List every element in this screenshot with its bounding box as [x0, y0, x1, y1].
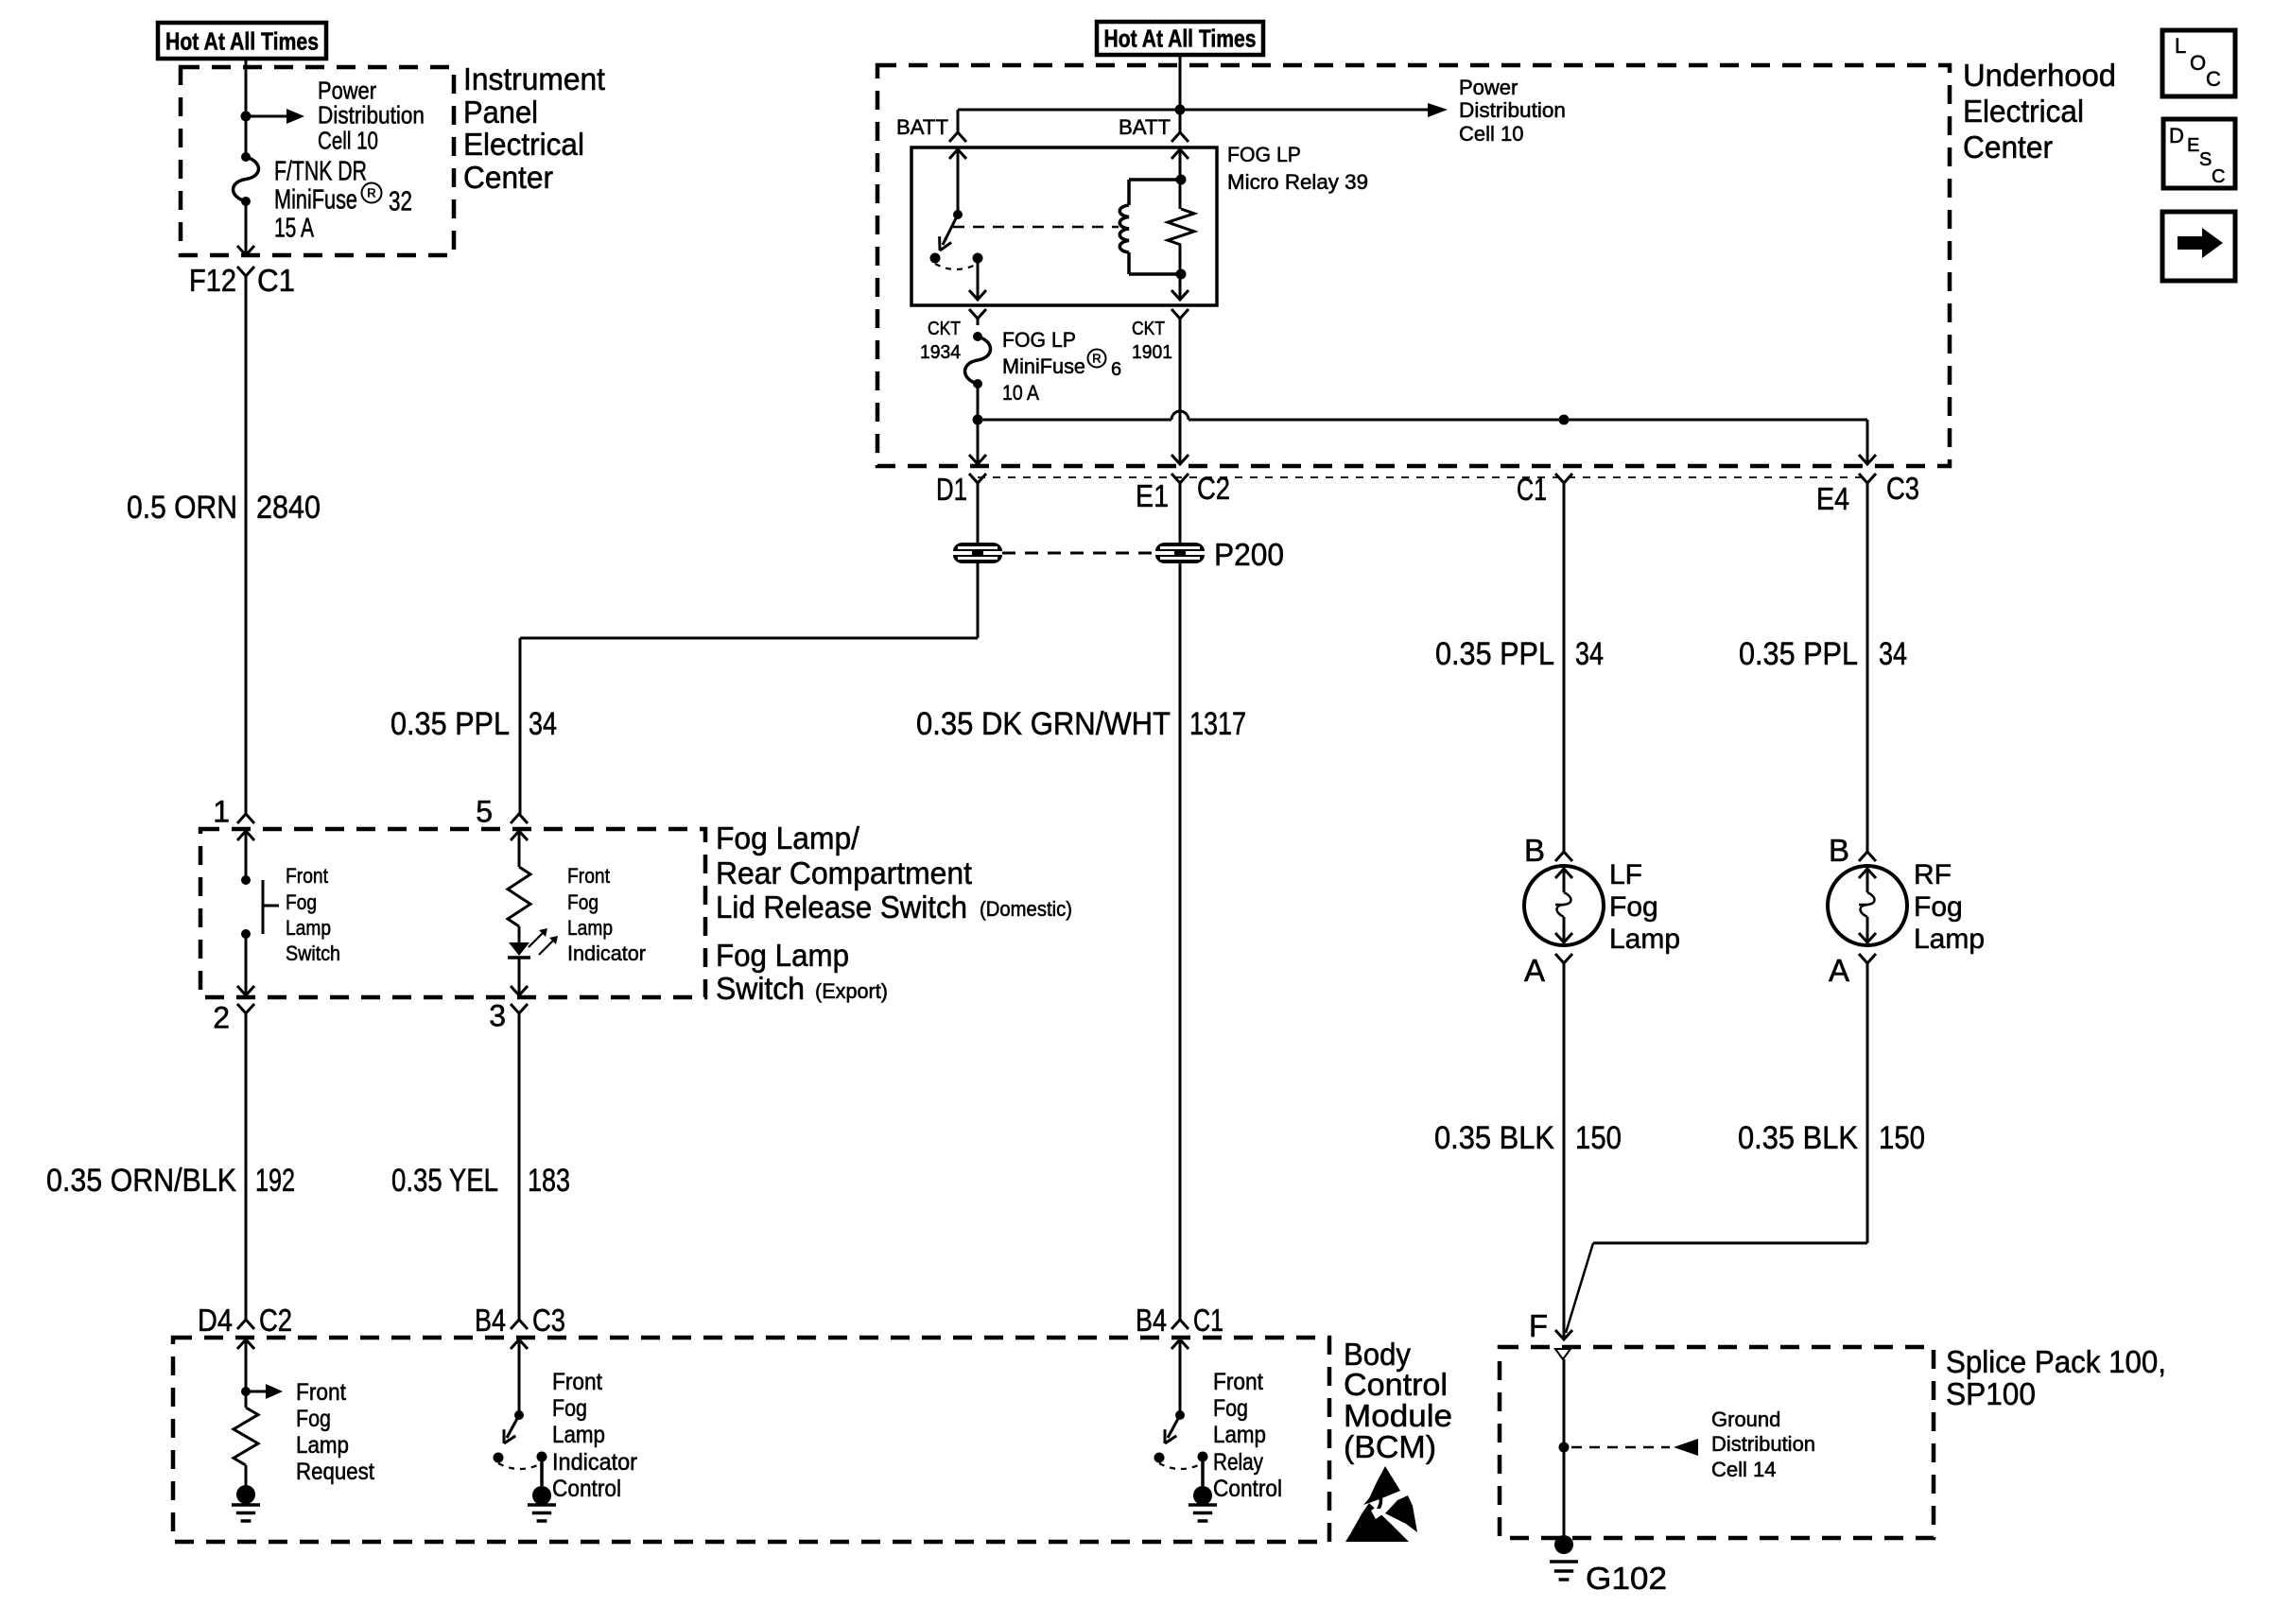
svg-text:32: 32	[389, 186, 412, 216]
svg-text:Cell 10: Cell 10	[318, 126, 378, 154]
svg-text:183: 183	[528, 1163, 570, 1199]
svg-text:C3: C3	[532, 1303, 565, 1338]
svg-text:D: D	[2169, 124, 2184, 147]
svg-text:Hot At All Times: Hot At All Times	[165, 26, 319, 55]
svg-text:E: E	[2187, 135, 2199, 156]
svg-text:192: 192	[255, 1163, 295, 1199]
svg-text:34: 34	[529, 706, 557, 742]
svg-text:C3: C3	[1886, 471, 1919, 506]
svg-text:Center: Center	[1963, 130, 2053, 164]
svg-text:Power: Power	[1459, 76, 1518, 99]
svg-text:Front: Front	[286, 864, 328, 888]
svg-text:C: C	[2206, 67, 2221, 91]
svg-text:2840: 2840	[256, 490, 321, 526]
svg-text:Control: Control	[1213, 1476, 1282, 1502]
svg-text:Electrical: Electrical	[1963, 94, 2084, 129]
svg-text:C1: C1	[1517, 472, 1547, 507]
svg-text:0.35 DK GRN/WHT: 0.35 DK GRN/WHT	[916, 706, 1171, 742]
svg-text:6: 6	[1111, 359, 1121, 380]
svg-text:F12: F12	[189, 263, 236, 298]
svg-text:Lamp: Lamp	[286, 916, 331, 940]
svg-text:Module: Module	[1344, 1398, 1452, 1433]
svg-text:SP100: SP100	[1946, 1376, 2036, 1411]
svg-text:15 A: 15 A	[274, 213, 314, 243]
svg-text:D4: D4	[198, 1303, 233, 1338]
svg-text:F: F	[1529, 1308, 1548, 1343]
svg-text:A: A	[1829, 953, 1849, 988]
svg-text:5: 5	[476, 795, 493, 829]
svg-text:Instrument: Instrument	[463, 61, 605, 96]
svg-text:D1: D1	[936, 472, 967, 507]
svg-text:(Domestic): (Domestic)	[980, 897, 1072, 921]
svg-text:Lamp: Lamp	[1609, 924, 1680, 955]
svg-text:Center: Center	[463, 160, 553, 195]
svg-text:B4: B4	[1136, 1303, 1167, 1338]
svg-text:Front: Front	[296, 1379, 346, 1406]
svg-text:Distribution: Distribution	[318, 100, 425, 129]
svg-text:Lamp: Lamp	[296, 1432, 349, 1459]
svg-text:Lamp: Lamp	[567, 916, 613, 940]
svg-text:B: B	[1524, 833, 1545, 868]
svg-text:0.5 ORN: 0.5 ORN	[127, 490, 237, 526]
svg-text:Ground: Ground	[1711, 1408, 1780, 1431]
svg-text:1934: 1934	[920, 342, 961, 363]
svg-text:0.35 YEL: 0.35 YEL	[391, 1163, 498, 1199]
svg-text:0.35 PPL: 0.35 PPL	[390, 706, 510, 742]
svg-text:Fog Lamp: Fog Lamp	[716, 938, 849, 973]
svg-text:P200: P200	[1214, 537, 1284, 572]
svg-text:Control: Control	[1344, 1367, 1448, 1402]
svg-text:C1: C1	[1193, 1303, 1223, 1338]
svg-text:0.35 BLK: 0.35 BLK	[1434, 1120, 1554, 1156]
svg-text:Fog: Fog	[1914, 891, 1963, 923]
svg-text:B4: B4	[475, 1303, 506, 1338]
svg-text:0.35 PPL: 0.35 PPL	[1435, 636, 1554, 672]
svg-text:Lamp: Lamp	[552, 1422, 605, 1448]
svg-text:F/TNK DR: F/TNK DR	[274, 156, 367, 186]
svg-text:S: S	[2199, 149, 2212, 170]
svg-text:Switch: Switch	[716, 971, 805, 1006]
svg-text:C: C	[2212, 166, 2225, 187]
svg-text:Distribution: Distribution	[1459, 98, 1566, 122]
svg-text:C1: C1	[257, 263, 295, 298]
svg-text:FOG LP: FOG LP	[1002, 328, 1076, 352]
svg-text:RF: RF	[1914, 859, 1952, 890]
svg-text:Front: Front	[567, 864, 610, 888]
svg-text:CKT: CKT	[1132, 319, 1165, 339]
svg-text:C2: C2	[1197, 471, 1230, 506]
svg-text:Lamp: Lamp	[1213, 1422, 1266, 1448]
svg-text:Fog: Fog	[567, 890, 599, 914]
svg-text:Underhood: Underhood	[1963, 58, 2116, 93]
svg-text:A: A	[1524, 953, 1545, 988]
svg-text:CKT: CKT	[928, 319, 961, 339]
svg-text:B: B	[1829, 833, 1849, 868]
svg-text:1317: 1317	[1189, 706, 1246, 742]
svg-text:(Export): (Export)	[815, 979, 888, 1003]
svg-text:0.35 ORN/BLK: 0.35 ORN/BLK	[46, 1163, 236, 1199]
svg-text:Electrical: Electrical	[463, 127, 584, 162]
svg-text:2: 2	[213, 1001, 230, 1035]
svg-text:Indicator: Indicator	[567, 942, 646, 965]
svg-text:BATT: BATT	[896, 115, 948, 139]
svg-text:Splice Pack 100,: Splice Pack 100,	[1946, 1344, 2166, 1379]
svg-text:0.35 BLK: 0.35 BLK	[1738, 1120, 1858, 1156]
svg-text:MiniFuse: MiniFuse	[1002, 354, 1085, 378]
svg-text:34: 34	[1879, 636, 1907, 672]
svg-text:Hot At All Times: Hot At All Times	[1104, 24, 1257, 52]
svg-text:(BCM): (BCM)	[1344, 1429, 1436, 1464]
svg-text:Rear Compartment: Rear Compartment	[716, 855, 972, 890]
svg-text:Cell 10: Cell 10	[1459, 122, 1523, 146]
svg-text:Lamp: Lamp	[1914, 924, 1985, 955]
svg-text:150: 150	[1575, 1120, 1622, 1156]
svg-text:G102: G102	[1586, 1561, 1667, 1596]
svg-text:150: 150	[1879, 1120, 1925, 1156]
svg-text:Fog: Fog	[1213, 1395, 1248, 1422]
svg-text:34: 34	[1575, 636, 1604, 672]
svg-text:Lid Release Switch: Lid Release Switch	[716, 890, 967, 924]
svg-text:R: R	[1092, 352, 1101, 366]
svg-text:Relay: Relay	[1213, 1449, 1263, 1476]
svg-text:BATT: BATT	[1119, 115, 1171, 139]
svg-text:Micro Relay 39: Micro Relay 39	[1227, 170, 1368, 194]
svg-text:Cell 14: Cell 14	[1711, 1458, 1776, 1481]
svg-text:Indicator: Indicator	[552, 1449, 637, 1476]
svg-text:Fog Lamp/: Fog Lamp/	[716, 821, 860, 855]
svg-text:MiniFuse: MiniFuse	[274, 184, 357, 215]
svg-text:Fog: Fog	[552, 1395, 587, 1422]
svg-text:Control: Control	[552, 1476, 621, 1502]
svg-text:Front: Front	[1213, 1369, 1263, 1395]
svg-text:1901: 1901	[1132, 342, 1172, 363]
svg-text:Front: Front	[552, 1369, 602, 1395]
svg-text:LF: LF	[1609, 859, 1642, 890]
svg-text:10 A: 10 A	[1002, 381, 1039, 405]
svg-text:3: 3	[489, 999, 506, 1033]
svg-text:Request: Request	[296, 1459, 374, 1485]
svg-text:E4: E4	[1816, 481, 1849, 516]
svg-text:1: 1	[213, 795, 230, 829]
svg-text:Fog: Fog	[296, 1406, 331, 1432]
svg-text:C2: C2	[259, 1303, 292, 1338]
svg-text:Distribution: Distribution	[1711, 1432, 1815, 1456]
svg-text:FOG LP: FOG LP	[1227, 143, 1301, 166]
svg-text:0.35 PPL: 0.35 PPL	[1739, 636, 1858, 672]
svg-text:Switch: Switch	[286, 942, 340, 965]
svg-text:R: R	[367, 186, 375, 200]
svg-text:Panel: Panel	[463, 95, 538, 130]
svg-text:E1: E1	[1136, 478, 1169, 513]
svg-text:Fog: Fog	[1609, 891, 1658, 923]
svg-text:Fog: Fog	[286, 890, 317, 914]
svg-text:O: O	[2190, 51, 2206, 75]
svg-text:L: L	[2175, 34, 2186, 58]
